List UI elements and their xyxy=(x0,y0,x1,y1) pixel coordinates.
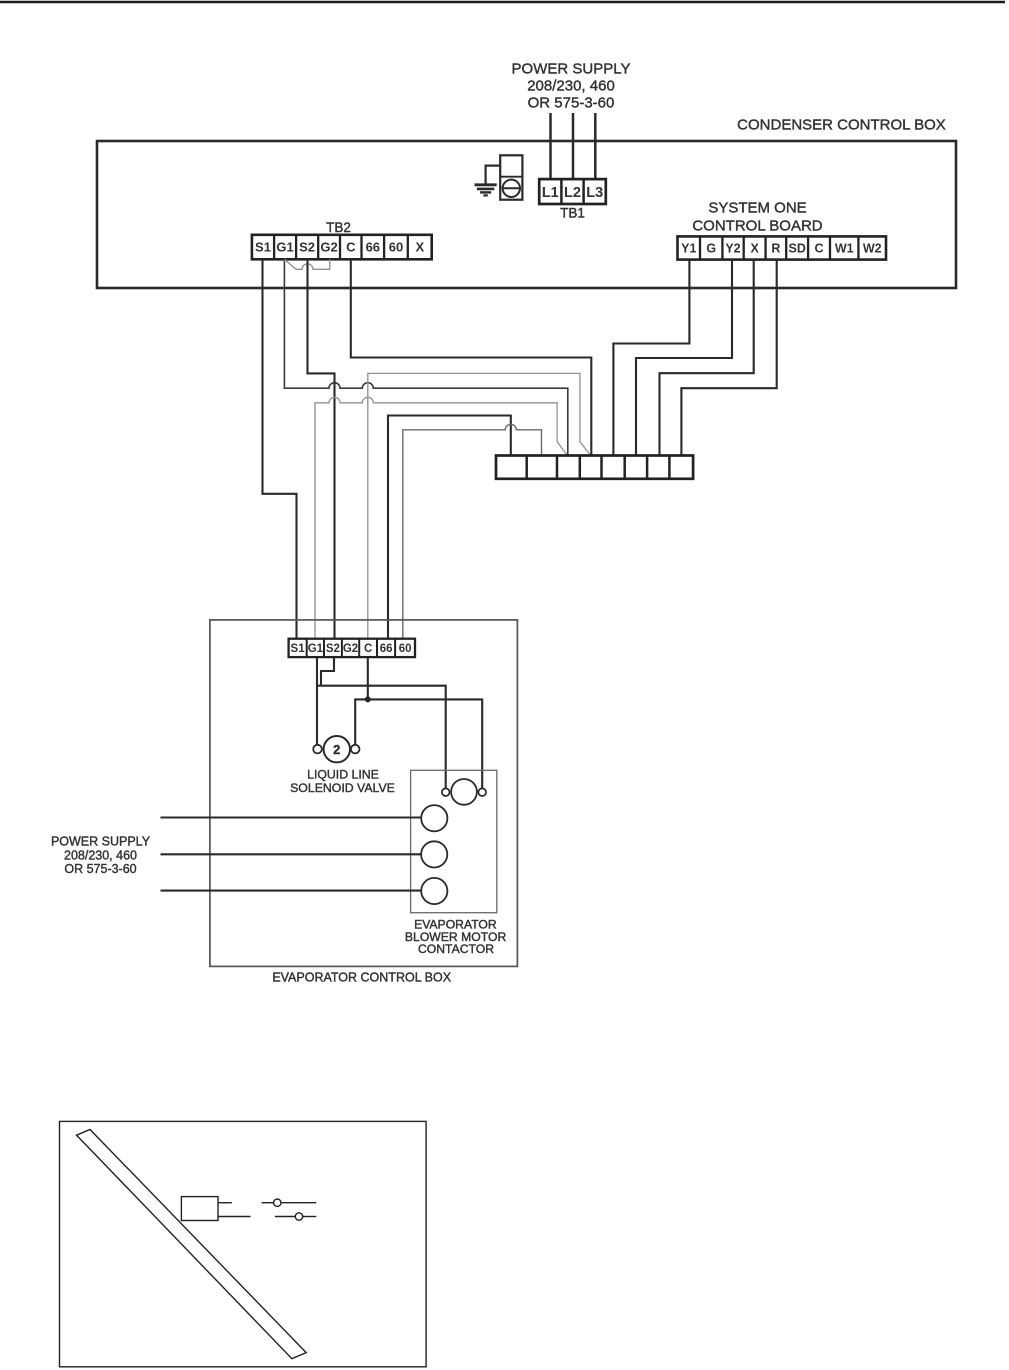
svg-text:66: 66 xyxy=(366,240,380,255)
svg-text:G2: G2 xyxy=(343,643,358,655)
svg-text:S2: S2 xyxy=(326,643,340,655)
svg-text:208/230, 460: 208/230, 460 xyxy=(64,848,137,862)
svg-text:S1: S1 xyxy=(291,643,306,655)
svg-text:C: C xyxy=(346,240,356,255)
svg-text:208/230, 460: 208/230, 460 xyxy=(527,78,615,95)
svg-text:TB2: TB2 xyxy=(326,220,351,235)
svg-text:60: 60 xyxy=(389,240,403,255)
svg-text:C: C xyxy=(364,643,372,655)
svg-text:W2: W2 xyxy=(863,242,882,256)
svg-text:C: C xyxy=(814,242,823,256)
svg-text:POWER SUPPLY: POWER SUPPLY xyxy=(512,61,631,78)
svg-text:SOLENOID VALVE: SOLENOID VALVE xyxy=(290,781,395,795)
svg-text:L2: L2 xyxy=(564,185,581,201)
svg-text:CONDENSER CONTROL BOX: CONDENSER CONTROL BOX xyxy=(737,117,946,134)
svg-text:POWER SUPPLY: POWER SUPPLY xyxy=(51,835,151,849)
svg-text:TB1: TB1 xyxy=(560,206,585,221)
svg-text:G1: G1 xyxy=(308,643,324,655)
svg-text:SYSTEM ONE: SYSTEM ONE xyxy=(708,200,806,217)
svg-text:S2: S2 xyxy=(299,240,315,255)
svg-text:SD: SD xyxy=(789,242,806,256)
svg-text:S1: S1 xyxy=(255,240,271,255)
svg-text:Y1: Y1 xyxy=(681,242,696,256)
svg-text:CONTROL BOARD: CONTROL BOARD xyxy=(692,218,822,235)
svg-text:L3: L3 xyxy=(586,185,603,201)
svg-text:X: X xyxy=(415,240,424,255)
svg-text:60: 60 xyxy=(399,643,412,655)
svg-text:OR 575-3-60: OR 575-3-60 xyxy=(64,862,136,876)
svg-text:L1: L1 xyxy=(542,185,559,201)
svg-text:G2: G2 xyxy=(320,240,337,255)
svg-text:LIQUID LINE: LIQUID LINE xyxy=(307,768,379,782)
svg-text:W1: W1 xyxy=(835,242,854,256)
svg-text:EVAPORATOR CONTROL BOX: EVAPORATOR CONTROL BOX xyxy=(272,971,451,985)
svg-text:X: X xyxy=(751,242,760,256)
svg-text:G1: G1 xyxy=(276,240,293,255)
svg-text:CONTACTOR: CONTACTOR xyxy=(418,942,494,956)
svg-text:G: G xyxy=(706,242,716,256)
svg-text:OR 575-3-60: OR 575-3-60 xyxy=(528,95,615,112)
svg-text:R: R xyxy=(771,242,780,256)
svg-text:Y2: Y2 xyxy=(725,242,740,256)
svg-text:2: 2 xyxy=(333,742,340,757)
svg-text:66: 66 xyxy=(380,643,393,655)
